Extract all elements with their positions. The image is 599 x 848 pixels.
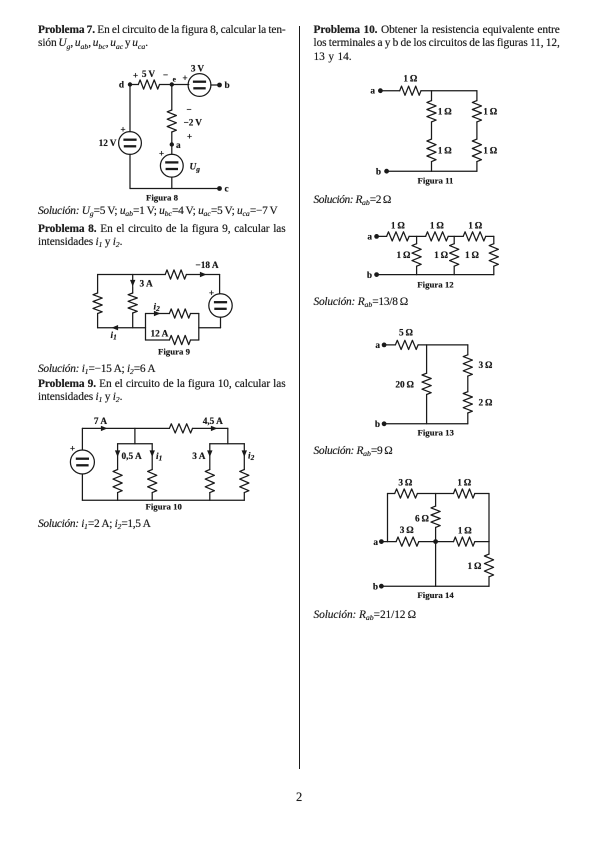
Solucion figura 14 [314, 609, 416, 622]
svg-text:3 Ω: 3 Ω [400, 526, 415, 536]
node a [170, 142, 174, 146]
node b [217, 83, 222, 88]
Solucion problema 8 [38, 363, 155, 376]
svg-text:+: + [182, 74, 187, 84]
svg-text:b: b [375, 420, 380, 430]
bottom wire [82, 499, 244, 501]
svg-text:3 Ω: 3 Ω [398, 479, 413, 489]
wire corner down [227, 428, 229, 443]
wire to center node [419, 541, 436, 543]
top wire with arrow [82, 427, 169, 429]
resistor 1ohm mid [454, 537, 475, 546]
svg-text:Figura 10: Figura 10 [145, 502, 182, 512]
svg-text:Ug: Ug [190, 163, 201, 174]
Problema 7 statement [38, 24, 286, 37]
resistor 1ohm h3 [463, 232, 486, 241]
Solucion problema 9 [38, 518, 151, 531]
svg-text:3 V: 3 V [191, 65, 205, 75]
svg-text:−2 V: −2 V [184, 119, 203, 129]
branch i2 resistor [169, 309, 190, 318]
wire source down to corner [220, 317, 222, 328]
svg-text:1 Ω: 1 Ω [468, 222, 483, 232]
svg-text:+: + [133, 72, 138, 82]
svg-text:5 Ω: 5 Ω [399, 329, 414, 339]
Solucion figura 13 [314, 445, 393, 458]
svg-text:1 Ω: 1 Ω [403, 75, 418, 85]
voltage source 12V [119, 132, 142, 155]
wire to bottom [476, 162, 478, 172]
parallel box right side [198, 314, 200, 341]
right column: wire [476, 91, 478, 101]
center vertical down [435, 542, 437, 587]
wire center to resistor [436, 541, 454, 543]
resistor 3ohm mid [396, 537, 419, 546]
svg-text:+: + [159, 150, 164, 160]
bottom wire left of box [98, 327, 146, 329]
wire to j1 [409, 235, 426, 237]
resistor -2V [167, 110, 176, 132]
resistor 3ohm top [395, 489, 418, 498]
svg-text:1 Ω: 1 Ω [457, 479, 472, 489]
svg-text:a: a [176, 141, 181, 151]
svg-text:5 V: 5 V [142, 70, 156, 80]
wire to j2 [448, 235, 463, 237]
vertical resistor v1 [416, 236, 418, 243]
resistor 1ohm top [454, 489, 475, 498]
left vertical wire [387, 494, 389, 542]
svg-text:1 Ω: 1 Ω [430, 222, 445, 232]
svg-text:+: + [120, 126, 125, 136]
vertical resistor v2 [453, 236, 455, 243]
wire a to source Ug [171, 145, 173, 155]
left resistor branch [97, 275, 99, 294]
svg-text:3 Ω: 3 Ω [479, 361, 494, 371]
top wire [98, 274, 166, 276]
resistor 1ohm top [400, 86, 421, 95]
svg-text:−: − [163, 71, 168, 81]
voltage source 3V [188, 74, 211, 97]
svg-text:+: + [70, 445, 75, 455]
svg-text:1 Ω: 1 Ω [483, 147, 498, 157]
svg-text:0,5 A: 0,5 A [122, 452, 142, 462]
wire between [467, 376, 469, 392]
svg-text:4,5 A: 4,5 A [203, 417, 223, 427]
branch i2: wire and arrow [146, 313, 170, 315]
svg-text:a: a [373, 538, 378, 548]
svg-text:12 A: 12 A [151, 330, 169, 340]
wire e down [171, 85, 173, 111]
Solucion figura 11 [314, 194, 391, 207]
resistor 1ohm left upper [427, 101, 436, 122]
first branch bar [118, 443, 153, 445]
right wire down [219, 275, 221, 294]
svg-text:6 Ω: 6 Ω [415, 515, 430, 525]
right branch 3ohm [467, 345, 469, 355]
branch 12A resistor [146, 339, 170, 341]
svg-text:Figura 9: Figura 9 [158, 347, 191, 357]
current arrow i1 [112, 325, 119, 330]
wire a to resistor [380, 90, 399, 92]
top wire [418, 344, 468, 346]
Solucion figura 12 [314, 296, 409, 309]
svg-text:i2: i2 [248, 452, 255, 463]
middle resistor branch [132, 287, 134, 294]
wire resistor to corner [186, 274, 219, 276]
svg-text:20 Ω: 20 Ω [395, 381, 414, 391]
wire to right edge [475, 541, 489, 543]
resistor 5ohm [395, 340, 418, 349]
current arrow -18A [200, 272, 207, 277]
wire to top-mid node [417, 493, 453, 495]
resistor top [165, 270, 186, 279]
svg-text:1 Ω: 1 Ω [438, 108, 453, 118]
resistor 6ohm vertical [435, 494, 437, 507]
svg-text:12 V: 12 V [99, 139, 117, 149]
top resistor [169, 424, 192, 433]
vertical resistor v3 [493, 236, 495, 243]
resistor 5V [138, 80, 159, 89]
svg-text:i1: i1 [156, 452, 162, 463]
first branch pair: feed [134, 428, 136, 443]
node c [217, 186, 222, 191]
voltage source [81, 428, 83, 450]
right vertical: wire to resistor [488, 542, 490, 555]
Problema 8 statement [38, 223, 286, 236]
branch i1 [151, 444, 153, 470]
branch 0,5A [117, 444, 119, 470]
svg-text:a: a [370, 87, 375, 97]
svg-text:i1: i1 [111, 331, 117, 342]
wire d to resistor [130, 84, 138, 86]
branch 3A [209, 444, 211, 470]
node d [128, 82, 132, 86]
wire middle left [431, 122, 433, 139]
svg-text:−18 A: −18 A [195, 261, 218, 271]
wire a to resistor [384, 344, 395, 346]
wire after resistor, arrow 4,5A [193, 427, 228, 429]
svg-text:1 Ω: 1 Ω [391, 222, 406, 232]
svg-text:7 A: 7 A [94, 417, 108, 427]
wire source to node b [211, 84, 220, 86]
svg-text:b: b [376, 168, 381, 178]
svg-text:a: a [375, 341, 380, 351]
svg-text:c: c [225, 185, 229, 195]
second branch bar [210, 443, 245, 445]
svg-text:1 Ω: 1 Ω [458, 526, 473, 536]
wire source to bottom [171, 177, 173, 188]
resistor 1ohm right [484, 554, 493, 577]
wire resistor to node e [160, 84, 189, 86]
wire resistor to node a [171, 132, 173, 145]
Problema 10 statement [314, 24, 560, 37]
wire resistor to junction and right corner [421, 90, 477, 92]
svg-text:b: b [373, 583, 378, 593]
current arrow 3A [132, 275, 134, 286]
left branch 20ohm [426, 345, 428, 373]
svg-text:1 Ω: 1 Ω [434, 251, 449, 261]
svg-text:i2: i2 [154, 303, 161, 314]
resistor 1ohm h2 [426, 232, 449, 241]
svg-text:2 Ω: 2 Ω [479, 399, 494, 409]
left column: wire [431, 91, 433, 101]
svg-text:+: + [209, 289, 214, 299]
svg-text:Figura 8: Figura 8 [146, 193, 179, 203]
column separator rule [299, 26, 300, 769]
resistor 1ohm right lower [472, 139, 481, 162]
svg-text:b: b [225, 81, 230, 91]
Solucion problema 7 [38, 205, 278, 218]
center node [433, 539, 438, 544]
voltage source [209, 294, 232, 317]
svg-text:Figura 12: Figura 12 [417, 280, 454, 290]
svg-text:3 A: 3 A [140, 280, 154, 290]
voltage source Ug [160, 154, 183, 177]
resistor 1ohm h1 [387, 232, 410, 241]
wire to corner [486, 235, 494, 237]
svg-text:−: − [186, 106, 191, 116]
svg-text:Figura 13: Figura 13 [417, 428, 454, 438]
svg-text:1 Ω: 1 Ω [397, 251, 412, 261]
wire to bottom [431, 162, 433, 172]
right edge vertical top [488, 494, 490, 542]
resistor 1ohm left lower [427, 139, 436, 162]
page number [296, 791, 302, 804]
bottom wire to node c [130, 188, 220, 190]
parallel box left side [145, 314, 147, 341]
wire source to bottom [129, 154, 131, 188]
svg-text:3 A: 3 A [192, 452, 206, 462]
node e [170, 82, 174, 86]
svg-text:b: b [367, 271, 372, 281]
wire middle right [476, 122, 478, 139]
top row: left wire [388, 493, 395, 495]
svg-text:+: + [187, 133, 192, 143]
Problema 9 statement [38, 378, 286, 391]
svg-text:Figura 14: Figura 14 [417, 590, 454, 600]
svg-text:1 Ω: 1 Ω [483, 108, 498, 118]
svg-text:1 Ω: 1 Ω [468, 562, 483, 572]
svg-text:e: e [173, 74, 177, 83]
wire d down to source 12V [129, 85, 131, 132]
right branch 2ohm [463, 392, 472, 413]
wire a to resistor 1 [377, 235, 387, 237]
svg-text:d: d [119, 81, 125, 91]
wire a to resistor [381, 541, 396, 543]
branch i2 [243, 444, 245, 470]
svg-text:1 Ω: 1 Ω [465, 251, 480, 261]
wire to top-right corner [475, 493, 489, 495]
svg-text:Figura 11: Figura 11 [418, 176, 454, 186]
resistor 1ohm right upper [472, 101, 481, 122]
svg-text:a: a [367, 233, 372, 243]
svg-text:1 Ω: 1 Ω [438, 147, 453, 157]
